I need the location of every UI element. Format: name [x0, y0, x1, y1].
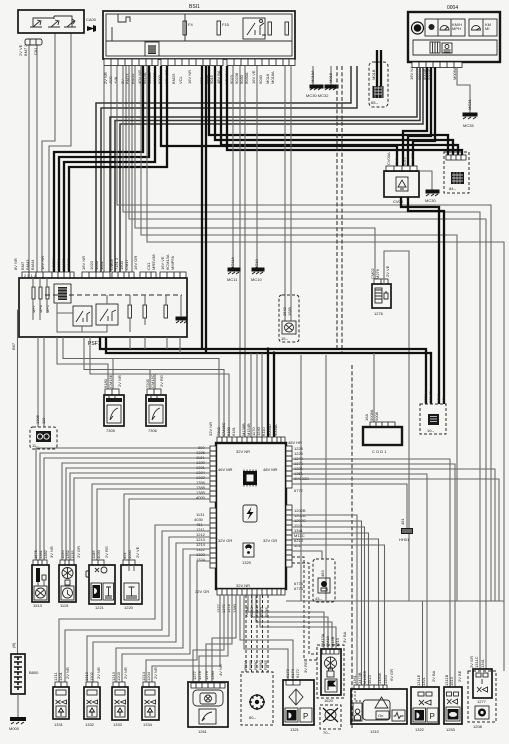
connector 10- (dashed) [420, 404, 446, 434]
svg-text:1208: 1208 [473, 724, 483, 729]
svg-text:1280: 1280 [210, 670, 215, 680]
medium pair harness right of BSI to PSF1 [96, 66, 357, 272]
dashed wires ECU bottom to connector 80- [246, 595, 268, 672]
svg-text:32V GR: 32V GR [218, 538, 232, 543]
svg-text:2V NR: 2V NR [153, 667, 158, 679]
wire ECU right to connector 43- [292, 551, 322, 559]
thick bundle 0004 to CV00 [403, 67, 435, 166]
svg-text:C81: C81 [33, 47, 38, 55]
svg-text:MR5V38: MR5V38 [151, 254, 156, 270]
ECU left wire id labels [194, 445, 206, 562]
thick feed CV00 area to connector 10- comb [401, 197, 444, 390]
svg-text:1620: 1620 [324, 698, 334, 703]
ECU left pin column [210, 446, 216, 568]
svg-text:M018A: M018A [270, 71, 275, 84]
svg-text:32V NR: 32V NR [236, 449, 250, 454]
svg-text:43--: 43-- [315, 596, 323, 601]
svg-text:M006A: M006A [452, 67, 457, 80]
svg-text:3V RG: 3V RG [303, 661, 308, 673]
transponder code unit COD1 [363, 353, 402, 454]
svg-text:CV00A: CV00A [386, 152, 391, 165]
wires ECU right to 1253 [292, 459, 455, 687]
connector 10- comb (thick stubs) [423, 390, 446, 404]
svg-text:110: 110 [41, 417, 46, 424]
wires ECU bottom to pump 1321 [240, 595, 293, 680]
svg-text:1382: 1382 [43, 549, 48, 559]
medium harness long horizontals to cluster 0004 [110, 67, 423, 272]
dashed pair ECU to 1620 [292, 557, 317, 660]
svg-text:1333: 1333 [113, 722, 123, 727]
wires PSF1 to connector 11- [38, 337, 44, 427]
svg-text:B800: B800 [29, 670, 39, 675]
svg-text:P: P [303, 712, 308, 721]
svg-text:C O D 1: C O D 1 [372, 449, 387, 454]
svg-text:6773: 6773 [294, 586, 304, 591]
svg-text:4000: 4000 [127, 549, 132, 559]
heated washer jet 1331 [53, 667, 70, 727]
svg-text:16V VE: 16V VE [251, 70, 256, 84]
svg-text:4V NR: 4V NR [218, 664, 223, 676]
thin harness BSI1 to PSF1 (left verticals) [104, 66, 132, 272]
diagnostic connector 65- (dashed) [369, 50, 388, 107]
ECU bottom connector row [195, 589, 285, 617]
svg-text:48V HR: 48V HR [288, 440, 302, 445]
BSI1 body control unit [103, 4, 295, 59]
dashed screened pair from BSI [336, 66, 338, 349]
coolant gauge 7306 [145, 374, 166, 433]
thick bundle BSI to PSF1 [54, 66, 167, 273]
heated washer jet 1334 [141, 667, 159, 727]
svg-text:BM25: BM25 [171, 73, 176, 84]
ground HH01 [399, 518, 413, 542]
svg-text:MC30 MC32: MC30 MC32 [306, 93, 329, 98]
svg-text:M018A: M018A [310, 70, 315, 83]
svg-text:46V MR: 46V MR [218, 467, 233, 472]
svg-text:16V: 16V [441, 396, 446, 403]
wire ECU right to 1322 [292, 474, 427, 687]
thick wire BSI to CV00 pin 1 [161, 66, 397, 166]
svg-text:M018: M018 [328, 72, 333, 83]
svg-text:1650C: 1650C [66, 258, 71, 270]
svg-text:CM15E: CM15E [108, 374, 113, 388]
wires BSI to grounds MC11/MC10 [233, 66, 257, 268]
svg-text:M01B: M01B [371, 69, 376, 80]
svg-text:2V NR: 2V NR [65, 667, 70, 679]
svg-text:(B): (B) [11, 642, 16, 648]
svg-text:1480E: 1480E [377, 672, 382, 684]
svg-text:6772: 6772 [294, 488, 304, 493]
ground MC10 (right of PSF1) [251, 259, 264, 282]
svg-text:451: 451 [400, 518, 405, 525]
fuel pump unit 1221 [86, 546, 115, 610]
svg-text:R09E: R09E [263, 660, 268, 670]
relay plate 1261 [188, 664, 228, 734]
svg-text:1278: 1278 [197, 670, 202, 680]
svg-text:F15: F15 [222, 22, 230, 27]
svg-text:1331: 1331 [54, 722, 64, 727]
ground M000 [9, 694, 26, 731]
wire B67 left edge to BB00 [11, 310, 19, 654]
svg-text:84--: 84-- [449, 186, 457, 191]
svg-text:MC10: MC10 [251, 277, 262, 282]
svg-text:16V N1: 16V N1 [409, 66, 414, 80]
svg-text:1115: 1115 [60, 603, 69, 608]
svg-text:B67: B67 [11, 342, 16, 350]
connector 43- (dashed) [313, 559, 335, 602]
ground MC35 wire from 0004 [457, 67, 472, 113]
svg-text:CA00: CA00 [86, 17, 97, 22]
svg-text:6181: 6181 [231, 426, 236, 436]
wire fan ECU-left upper to bottom component row [36, 448, 210, 560]
svg-text:On: On [378, 713, 383, 718]
svg-text:1332: 1332 [85, 722, 95, 727]
central ECU 1320 [216, 437, 286, 589]
svg-text:1203: 1203 [116, 671, 121, 681]
svg-text:1276: 1276 [374, 311, 384, 316]
svg-text:65--: 65-- [371, 100, 379, 105]
svg-text:1051: 1051 [99, 260, 104, 270]
connector 15- (dashed) with wires to BSI [279, 66, 299, 342]
svg-text:6172: 6172 [295, 668, 300, 678]
svg-text:1334: 1334 [143, 722, 153, 727]
battery junction box BB00 [11, 654, 39, 694]
svg-text:CM15C: CM15C [150, 374, 155, 388]
svg-text:32V NR: 32V NR [208, 422, 213, 436]
svg-text:HH01: HH01 [399, 537, 410, 542]
wire fan ECU-left lower to staircase [59, 525, 220, 682]
svg-text:1329: 1329 [242, 560, 252, 565]
fuel gauge 7305 [103, 374, 124, 433]
wires PSF1 to 7305/7306 [57, 337, 229, 437]
thick pair BSI down to main feed [202, 66, 206, 353]
svg-text:M000: M000 [9, 726, 20, 731]
svg-text:1277: 1277 [477, 699, 487, 704]
svg-text:32V GR: 32V GR [263, 538, 277, 543]
svg-text:CV1: CV1 [394, 156, 399, 165]
heated washer jet 1332 [84, 667, 101, 727]
svg-text:BM44: BM44 [30, 259, 35, 270]
svg-text:3V BA: 3V BA [342, 631, 347, 643]
connector 11- (dashed) [30, 414, 57, 449]
svg-text:7305: 7305 [106, 428, 116, 433]
svg-text:1201: 1201 [58, 671, 63, 681]
wires ECU right to right column [292, 469, 499, 601]
svg-text:P: P [430, 712, 435, 721]
wires PSF1 bottom into feed [130, 337, 180, 353]
0004 bottom connector pin row [409, 62, 462, 80]
connector plug icon for CA00 [87, 25, 96, 32]
svg-text:VCL: VCL [178, 75, 183, 84]
washer pump 1321 [283, 661, 314, 732]
svg-text:2V NR: 2V NR [96, 667, 101, 679]
svg-text:1253: 1253 [446, 727, 456, 732]
wires ECU bottom to lock unit 1620 [248, 595, 336, 649]
svg-text:BM7 2: BM7 2 [23, 44, 28, 56]
svg-text:9004D: 9004D [267, 424, 272, 436]
engine fuse box PSF1 [19, 278, 187, 347]
svg-text:BSI1: BSI1 [189, 4, 200, 10]
svg-text:7306: 7306 [148, 428, 158, 433]
svg-text:0004C: 0004C [428, 391, 433, 403]
PSF1 top connector pin row [22, 272, 186, 278]
svg-text:16V NR: 16V NR [40, 256, 45, 270]
svg-text:16V NR: 16V NR [187, 70, 192, 84]
ECU right wire id labels [294, 446, 309, 591]
thin band BSI to right-hand components [117, 66, 504, 671]
svg-text:483: 483 [320, 570, 325, 577]
svg-text:1261: 1261 [198, 729, 208, 734]
svg-text:1321: 1321 [290, 727, 300, 732]
svg-text:3V NR: 3V NR [49, 546, 54, 558]
svg-text:32V NR: 32V NR [236, 583, 250, 588]
thick bundle BSI to connector 84- [209, 66, 462, 155]
ground MC35 [463, 113, 477, 128]
svg-text:MC11: MC11 [227, 277, 238, 282]
svg-text:1311C: 1311C [474, 656, 479, 668]
ECU right pin column [286, 446, 292, 567]
wires ECU right to switch unit 1310 [292, 515, 385, 685]
heating control switch 1310 [351, 669, 407, 734]
svg-text:MC35: MC35 [463, 123, 474, 128]
svg-text:2V VE: 2V VE [385, 265, 390, 277]
interior lamp rheostat 1276 [370, 251, 409, 601]
svg-text:9040: 9040 [258, 74, 263, 84]
pump 1208 icon [475, 706, 489, 719]
svg-text:1513: 1513 [33, 603, 43, 608]
connector 84- (dashed) [444, 152, 469, 193]
svg-text:9004A: 9004A [273, 424, 278, 436]
svg-text:MPH: MPH [452, 26, 461, 31]
svg-text:CV00: CV00 [393, 199, 404, 204]
svg-text:1306: 1306 [35, 414, 40, 424]
svg-text:1310: 1310 [370, 729, 380, 734]
svg-text:16V OR: 16V OR [133, 256, 138, 270]
BSI1 bottom connector pin row [104, 59, 295, 66]
combination switch CA00 [18, 10, 97, 33]
fuel flap lock 1620 [317, 631, 347, 703]
svg-text:2V RG: 2V RG [159, 375, 164, 387]
ground MC32 (below BSI1) [306, 66, 338, 98]
svg-text:M276: M276 [375, 268, 380, 279]
heated washer jet 1333 [111, 667, 128, 727]
wires ECU bottom to relay plate 1261 [193, 595, 236, 682]
svg-text:8V NR: 8V NR [13, 258, 18, 270]
svg-text:2V GR: 2V GR [76, 546, 81, 558]
svg-text:1220: 1220 [124, 605, 134, 610]
PSF1 top connector labels [13, 254, 175, 270]
wire harness CA00 to PSF1 (4 thin verticals) [29, 33, 71, 272]
thin wires BSI to ECU top [240, 66, 245, 437]
svg-text:1513: 1513 [449, 676, 454, 686]
svg-text:1321: 1321 [421, 676, 426, 686]
svg-text:1513: 1513 [367, 674, 372, 684]
ECU top labels [208, 422, 302, 445]
additive pump 1253 [444, 670, 462, 732]
svg-text:2V BE: 2V BE [457, 670, 462, 682]
svg-text:2V BA: 2V BA [431, 670, 436, 682]
warning buzzer CV00 [384, 152, 419, 204]
svg-text:2V NR: 2V NR [123, 667, 128, 679]
fuel gauge sender 1220 [121, 546, 142, 610]
svg-text:6V GR: 6V GR [410, 153, 415, 165]
wire ECU right to ground HH01 [292, 484, 407, 528]
svg-text:1279: 1279 [204, 670, 209, 680]
svg-text:70--: 70-- [323, 730, 331, 735]
heated fuel pump 1322 [411, 670, 439, 732]
wiper motor 1513 [32, 546, 54, 608]
svg-text:2V NR: 2V NR [117, 375, 122, 387]
svg-text:80--: 80-- [249, 715, 257, 720]
svg-text:1204: 1204 [146, 671, 151, 681]
svg-text:2V RG: 2V RG [104, 546, 109, 558]
svg-text:MC31: MC31 [467, 99, 472, 110]
svg-text:1589: 1589 [287, 306, 292, 316]
svg-text:1202: 1202 [89, 671, 94, 681]
ground MC30 (right of CV00) [419, 171, 439, 203]
junction dots on main feed [266, 347, 269, 350]
svg-text:F4: F4 [188, 22, 193, 27]
instrument cluster 0004 [408, 5, 500, 62]
svg-text:MMPFA: MMPFA [170, 255, 175, 270]
svg-text:15--: 15-- [281, 336, 289, 341]
svg-text:0004: 0004 [447, 5, 458, 11]
dash-dot harness boundary [351, 365, 353, 728]
pump unit 1277 inside dashed 1208 [468, 656, 496, 729]
connector block C01 below CA00 [18, 39, 42, 56]
ground MC30 (below BSI1) [310, 66, 323, 90]
svg-text:48V MR: 48V MR [263, 467, 278, 472]
svg-text:1322: 1322 [415, 727, 425, 732]
svg-text:6110: 6110 [261, 427, 266, 436]
svg-text:1341: 1341 [480, 658, 485, 668]
svg-text:MC30: MC30 [425, 198, 436, 203]
svg-text:4030: 4030 [96, 549, 101, 559]
heater fan 1115 [59, 546, 81, 608]
svg-text:1221: 1221 [95, 605, 105, 610]
wire ECU bottom horizontal to 1322/right column [286, 601, 504, 687]
svg-text:CM17: CM17 [124, 259, 129, 270]
svg-text:2V VE: 2V VE [135, 546, 140, 558]
svg-text:6V GR: 6V GR [389, 669, 394, 681]
wire id labels under BSI1 [103, 70, 275, 84]
svg-text:1353: 1353 [383, 674, 388, 684]
svg-text:10--: 10-- [427, 428, 435, 433]
svg-text:CV2: CV2 [402, 156, 407, 165]
svg-text:1135: 1135 [70, 550, 75, 559]
svg-text:16V NR: 16V NR [81, 256, 86, 270]
connector 70- with crossed fan (dashed) [320, 705, 341, 735]
svg-text:11--: 11-- [32, 443, 39, 448]
main thick feed PSF1 to ECU and connector 10- [100, 337, 431, 601]
svg-text:0008: 0008 [374, 411, 379, 421]
svg-text:1213: 1213 [335, 637, 340, 647]
connector 80- (dashed) [241, 660, 273, 725]
ground MC11 (right of PSF1) [227, 257, 240, 282]
svg-text:MI: MI [485, 26, 489, 31]
